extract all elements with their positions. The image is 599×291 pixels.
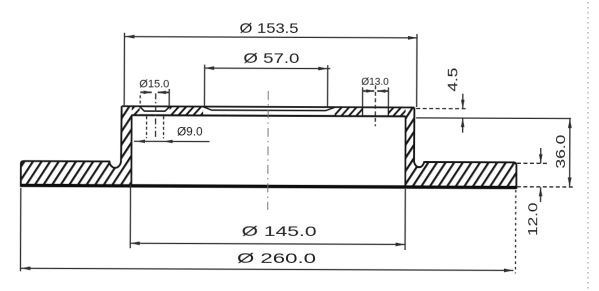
svg-text:Ø 153.5: Ø 153.5: [239, 20, 298, 36]
svg-text:4.5: 4.5: [444, 67, 460, 91]
svg-text:Ø15.0: Ø15.0: [139, 78, 169, 90]
svg-text:12.0: 12.0: [525, 202, 540, 236]
svg-text:Ø13.0: Ø13.0: [361, 76, 389, 88]
svg-text:Ø9.0: Ø9.0: [177, 124, 203, 138]
svg-text:Ø 57.0: Ø 57.0: [243, 50, 299, 66]
svg-text:Ø 260.0: Ø 260.0: [237, 250, 316, 266]
svg-text:36.0: 36.0: [553, 135, 568, 169]
svg-text:Ø 145.0: Ø 145.0: [242, 223, 317, 239]
